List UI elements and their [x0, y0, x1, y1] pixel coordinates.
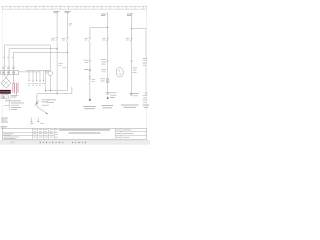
dark red stamp band lower — [0, 92, 11, 94]
wire W3 label — [65, 11, 71, 12]
terminal tick K1 — [106, 91, 110, 93]
PE tick — [4, 104, 9, 106]
bus line B — [37, 87, 72, 94]
wire M1 vertical middle — [89, 41, 91, 98]
branch wire to right — [131, 28, 146, 30]
wire K1 vertical upper — [107, 12, 109, 41]
tick on K1 — [106, 60, 109, 62]
wire number labels between W2 and W3 — [59, 63, 66, 68]
labels left of K1 — [101, 60, 106, 64]
contact Q on wire W2 — [51, 37, 58, 41]
valve labels — [100, 79, 105, 81]
PE box side label — [11, 95, 19, 97]
title small header cells text — [33, 129, 53, 131]
terminal X mark F1 — [129, 93, 133, 96]
title block left verticals — [32, 128, 54, 139]
coil/lamp P1 on wire W1 — [48, 71, 53, 76]
terminal X1:1 — [3, 71, 5, 73]
wire W3 vertical lower — [67, 41, 69, 90]
header column-ruler strip — [2, 6, 147, 9]
switch labels — [42, 100, 50, 105]
contact on F1 — [126, 37, 132, 41]
cable core drop 4 — [39, 70, 41, 81]
core labels — [28, 84, 45, 86]
function text block 2 — [102, 106, 113, 108]
cable core drop 3 — [36, 72, 38, 80]
limit switch roller — [36, 102, 38, 104]
actuator arrow — [37, 107, 48, 114]
stray verticals above table — [32, 117, 39, 121]
page border right — [146, 9, 148, 128]
bus line A — [46, 90, 68, 92]
far right component labels — [143, 59, 148, 66]
wire K1 label — [101, 14, 107, 16]
bundle left drop 3 — [13, 52, 15, 70]
contact on wire M1 — [84, 37, 90, 41]
wire exit right of X1 (rail 2) — [19, 71, 41, 73]
node dot W3/L3 — [67, 52, 68, 53]
connector block to bridge left — [4, 74, 9, 78]
wire W1 below coil — [49, 76, 51, 91]
wire W3 vertical upper — [67, 12, 69, 37]
title block right horizontals — [115, 132, 147, 136]
bridge rectifier V1 diamond — [1, 78, 11, 88]
title left cell texts — [3, 134, 13, 135]
terminal X1:2 — [8, 71, 10, 73]
red vertical label bars — [13, 82, 18, 94]
terminal X mark K1 — [107, 93, 109, 95]
limit switch S1 stem — [36, 94, 38, 107]
tick on M1 — [89, 60, 92, 62]
toolbar warning tint — [10, 142, 15, 144]
terminal block X1 — [1, 71, 19, 75]
title right cells text — [116, 130, 133, 137]
title block outer frame — [2, 128, 147, 139]
bundle line L1 — [5, 44, 51, 46]
node dot W2/L2 — [56, 48, 57, 49]
tick on F1 — [130, 60, 133, 62]
bridge inner diagonals — [4, 80, 9, 85]
title block right verticals — [115, 128, 121, 139]
labels right of F1 — [132, 68, 137, 72]
wire W1 from L1 corner — [49, 45, 51, 71]
wire M1 vertical upper — [89, 28, 91, 37]
wire K1 vertical lower — [107, 42, 109, 93]
wire W2 vertical upper — [56, 12, 58, 37]
function text block 1 — [83, 106, 96, 108]
labels left of M1 — [84, 60, 89, 69]
drop from X1:3 to label bars — [13, 74, 15, 84]
labels right of M1 lower — [92, 79, 95, 81]
wire number ticks on drops — [3, 56, 14, 58]
status toolbar strip — [0, 140, 150, 144]
F1 terminal labels right — [133, 93, 138, 95]
contact on K1 — [102, 37, 108, 41]
node dot K1 branch — [107, 27, 108, 28]
motor ellipse M2 — [116, 68, 123, 77]
motor inner marks — [119, 70, 120, 71]
terminal X1:3 — [13, 71, 15, 73]
title center text line 1 — [59, 129, 110, 131]
node dot bus A left — [45, 90, 46, 91]
bundle left drop 2 — [8, 49, 10, 71]
toolbar icon cluster 1 — [40, 142, 64, 143]
function text block 4 — [143, 105, 150, 107]
wire F1 label — [127, 14, 133, 16]
loop on M1 — [89, 69, 91, 71]
end arrow of K1 — [107, 96, 109, 98]
PE box inner marks — [3, 96, 7, 97]
node dot bus B / W2 — [57, 93, 58, 94]
terminal labels above block — [2, 67, 15, 69]
wire W3 side tick label — [69, 24, 72, 25]
wire F1 vertical upper — [130, 12, 132, 41]
stamp text block — [1, 118, 8, 128]
PE box — [1, 95, 8, 99]
page border left — [1, 9, 3, 128]
PE conductor vertical — [8, 98, 10, 109]
title block left horizontals — [2, 133, 54, 136]
valve symbol on K1 — [107, 79, 109, 83]
end arrow of M1 — [89, 98, 92, 101]
wire W2 label — [54, 11, 60, 12]
bundle line L2 — [9, 48, 57, 50]
title center text line 2 — [69, 132, 101, 134]
bundle left drop 1 — [4, 45, 6, 71]
far right lower wire — [145, 66, 147, 92]
function text block 3 — [121, 105, 139, 107]
bundle line L3 — [14, 51, 68, 53]
K1 terminal labels right — [110, 93, 117, 98]
far right labels — [143, 96, 148, 103]
node dot F1 branch — [131, 28, 132, 29]
node dot bus A / W1 — [50, 90, 51, 91]
wire M1 top corner — [90, 27, 108, 29]
cable core drop 5 — [43, 70, 45, 80]
cable core drop 6 (to bus A) — [45, 70, 47, 90]
cable rail 1 — [26, 69, 51, 71]
notes list text — [5, 101, 24, 110]
cable core drop 1 — [28, 70, 30, 80]
title prefix column texts — [55, 130, 58, 138]
far right terminal X — [145, 92, 147, 94]
ruler cell numbers — [6, 7, 140, 9]
limit switch blade — [35, 100, 40, 105]
mid labels K1 — [101, 70, 106, 72]
dark red stamp band upper — [0, 90, 11, 92]
wire F1 vertical lower — [130, 42, 132, 95]
bottom-left wire labels — [47, 100, 56, 102]
contact on wire W3 — [62, 37, 69, 41]
toolbar icon cluster 2 — [72, 142, 86, 143]
coil P1 label — [45, 71, 49, 73]
lower ticks on M1 — [89, 77, 92, 79]
wire W2 vertical lower — [56, 41, 58, 93]
cable core drop 2 — [32, 70, 34, 81]
far right drop wire — [145, 29, 147, 59]
